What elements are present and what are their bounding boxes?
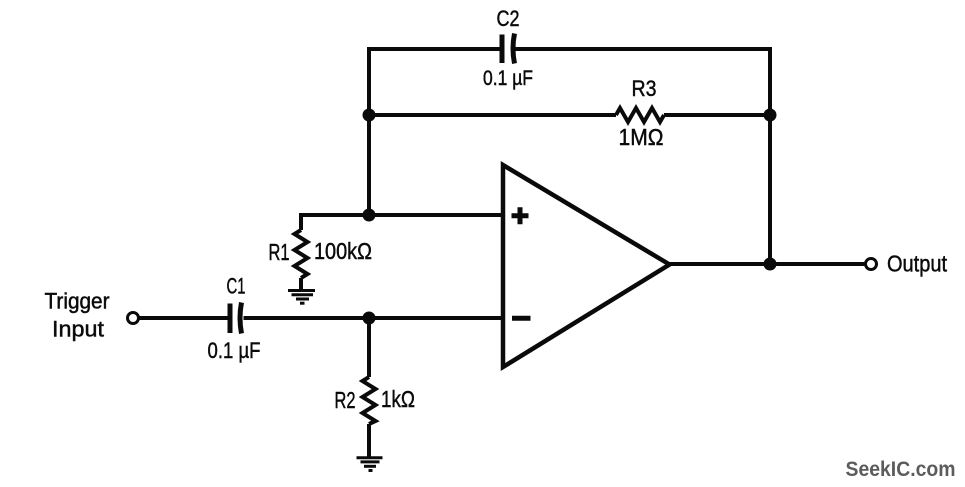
svg-text:1kΩ: 1kΩ [381,386,415,412]
svg-text:C1: C1 [227,274,246,299]
svg-text:C2: C2 [497,6,520,31]
ground for R1 [288,291,315,304]
ground for R2 [357,458,383,471]
svg-text:Trigger: Trigger [45,289,110,314]
wire input to C1 [139,316,228,320]
capacitor C2 [483,6,533,90]
node junction R3 right [764,109,777,122]
svg-text:0.1 µF: 0.1 µF [208,338,261,363]
wire right vertical of feedback loop [768,47,772,264]
svg-text:R1: R1 [269,239,290,265]
resistor R2 [335,318,416,457]
node junction R3 left [363,109,376,122]
svg-text:100kΩ: 100kΩ [314,238,372,264]
node junction plus input [363,209,376,222]
wire left vertical of feedback loop [367,47,371,215]
resistor R1 [269,213,373,290]
svg-text:SeekIC.com: SeekIC.com [846,458,956,481]
watermark SeekIC.com [846,458,956,481]
wire output [670,262,866,266]
op-amp U1 [503,165,670,367]
wire noninverting input [301,213,503,217]
node junction minus input [363,312,376,325]
output terminal [866,251,948,277]
svg-text:0.1 µF: 0.1 µF [483,67,533,90]
resistor R3 [369,76,770,150]
wire top feedback left segment [369,47,501,51]
node junction output feedback [764,258,777,271]
svg-text:R3: R3 [632,76,657,101]
capacitor C1 [208,274,261,364]
svg-text:R2: R2 [335,387,356,413]
svg-text:Output: Output [887,251,948,277]
svg-text:1MΩ: 1MΩ [619,124,664,150]
wire top feedback right segment [516,47,771,51]
trigger input terminal [45,289,139,342]
wire C1 to inverting input [244,316,504,320]
svg-text:Input: Input [52,317,104,342]
